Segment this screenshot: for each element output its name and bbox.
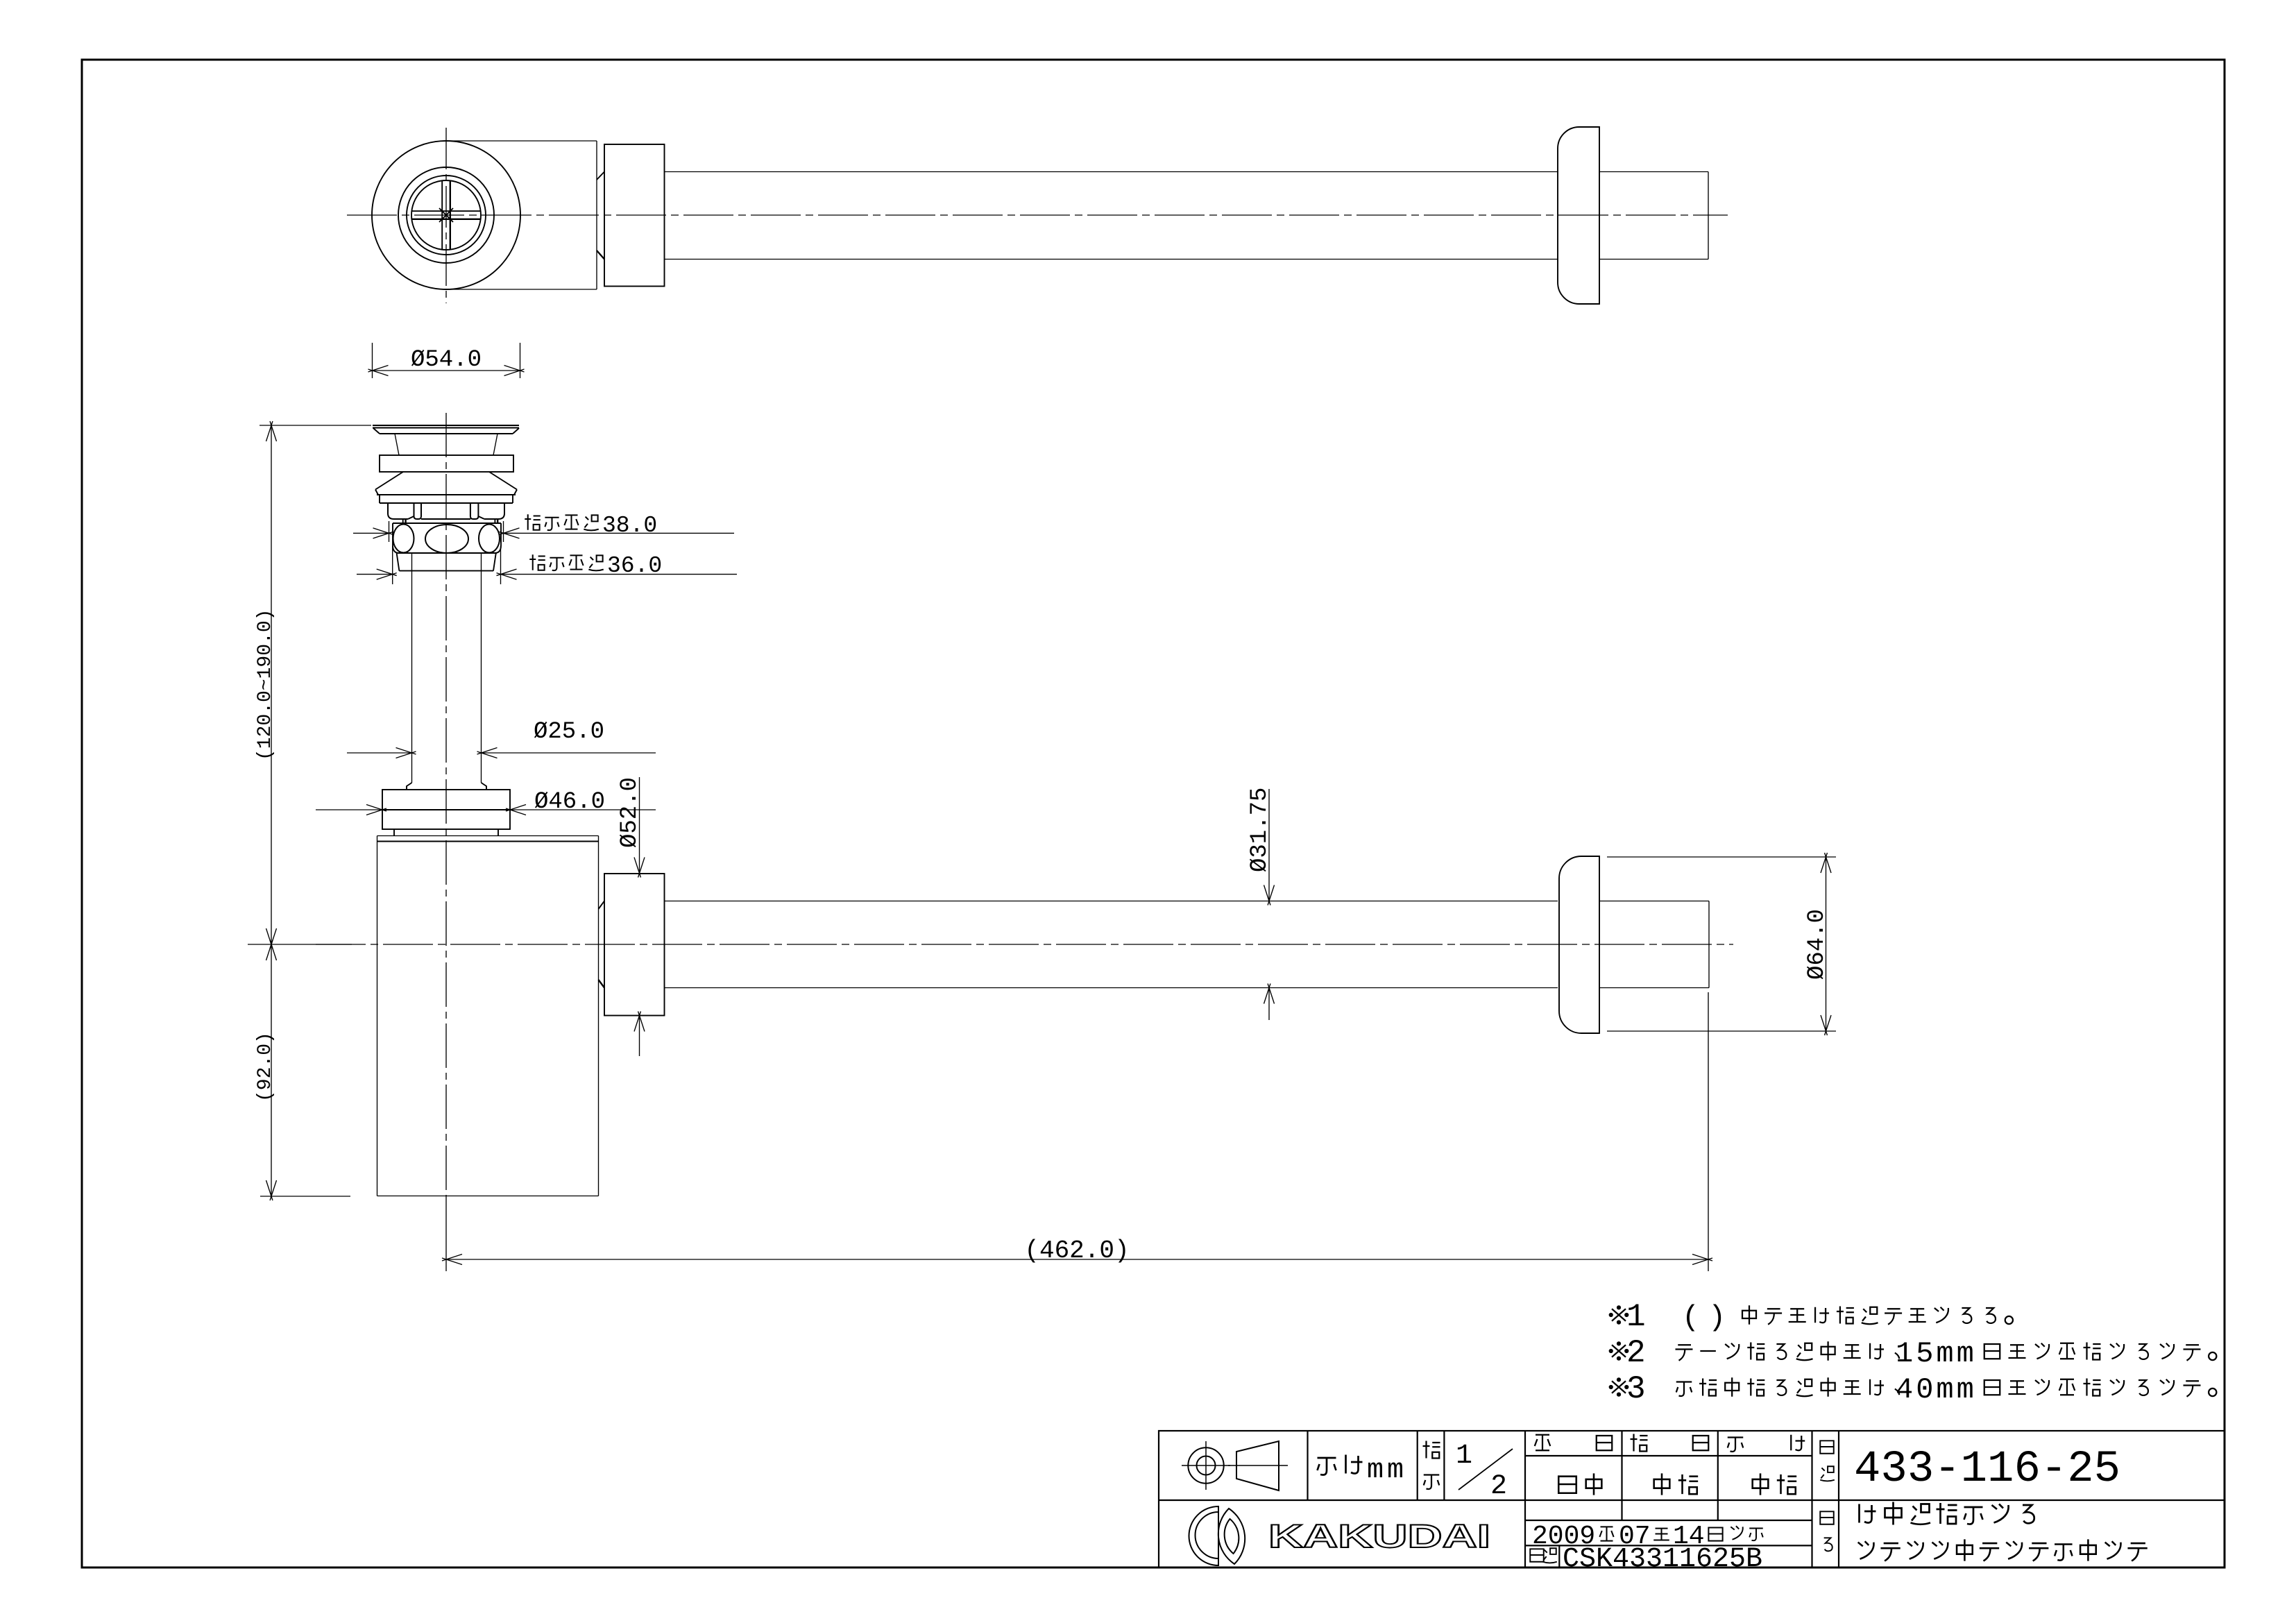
front: hex nut center chamfer ellipse — [425, 525, 468, 553]
dim Ø25.0 line and arrows — [347, 752, 412, 754]
top view: union nut — [604, 144, 665, 287]
header 検図 — [1631, 1434, 1648, 1452]
svg-text:2: 2 — [1626, 1335, 1646, 1371]
svg-text:1: 1 — [1626, 1299, 1646, 1335]
name 中嶋 — [1753, 1473, 1769, 1495]
product name line2 ボックストラップユニット — [1858, 1541, 1874, 1559]
front: horizontal pipe upper line — [665, 901, 1558, 902]
dim 六角対辺36.0 line and arrows — [357, 574, 393, 575]
front view: centerline extension to 462 dim — [445, 1196, 447, 1271]
front: lock ring band — [380, 455, 513, 472]
top view: elbow body — [446, 140, 597, 142]
svg-text:Ø54.0: Ø54.0 — [411, 347, 482, 373]
label 尺度 — [1423, 1441, 1440, 1459]
top view: wall escutcheon — [1558, 127, 1599, 304]
dim Ø52.0 vertical line and arrows — [639, 777, 640, 874]
front: hex nut (38 across flats) body — [393, 523, 501, 553]
title block zuban cell divider — [1558, 1545, 1560, 1567]
svg-text:(92.0): (92.0) — [255, 1032, 276, 1102]
title block outer — [1159, 1431, 2225, 1567]
note 1 — [1610, 1306, 1629, 1323]
svg-text:40mm: 40mm — [1896, 1373, 1977, 1407]
svg-text:3: 3 — [1626, 1371, 1646, 1407]
front: outlet union nut (Ø52) — [604, 874, 665, 1016]
product name line1 低位通気弁つき — [1860, 1504, 1876, 1523]
title block drafting columns — [1621, 1431, 1622, 1520]
svg-text:(120.0~190.0): (120.0~190.0) — [255, 609, 276, 760]
dim Ø31.75 vertical line and arrows — [1268, 789, 1270, 901]
svg-text:Ø64.0: Ø64.0 — [1804, 909, 1830, 980]
front: flange top plate — [373, 425, 519, 434]
label 図番 — [1530, 1549, 1543, 1561]
dim Ø64.0 vertical line and arrows — [1826, 857, 1827, 1031]
title block date row line — [1525, 1545, 1812, 1546]
svg-text:CSK43311625B: CSK43311625B — [1563, 1544, 1762, 1575]
top view: vertical centerline of flange — [445, 128, 447, 303]
title block names row line — [1525, 1520, 1812, 1521]
dim (92.0) vertical line — [271, 944, 272, 1196]
svg-text:15mm: 15mm — [1896, 1337, 1977, 1370]
svg-text:KAKUDAI: KAKUDAI — [1268, 1518, 1490, 1554]
front: wall escutcheon — [1559, 856, 1599, 1033]
title block header row line — [1525, 1455, 1812, 1456]
svg-text:38.0: 38.0 — [602, 513, 657, 538]
front: pipe flare above collar — [407, 783, 486, 790]
front: trap inlet collar (Ø46) — [382, 790, 510, 829]
front: vent valve stems — [402, 519, 404, 524]
top view: thread chamfer marks — [597, 172, 604, 180]
front: tail pipe into socket — [1599, 901, 1709, 902]
front: collar lower step — [394, 829, 498, 836]
dim (462.0) line and arrows — [446, 1259, 1708, 1260]
note 2 — [1610, 1342, 1629, 1359]
svg-text:Ø52.0: Ø52.0 — [617, 777, 643, 848]
dim Ø54.0 — [373, 370, 520, 371]
svg-text:(: ( — [1682, 1301, 1699, 1334]
top view: pipe stub beyond escutcheon — [1599, 171, 1708, 173]
top view: pipe lower line — [665, 259, 1558, 260]
svg-text:(462.0): (462.0) — [1024, 1237, 1129, 1265]
label 六角対辺36.0 — [529, 554, 545, 570]
front: outlet thread chamfer marks — [599, 901, 605, 910]
name 甲藤 — [1654, 1473, 1670, 1495]
dim 六角対辺38.0 line and arrows — [353, 532, 389, 534]
front: skirt lower step — [380, 495, 513, 503]
svg-text:Ø46.0: Ø46.0 — [534, 789, 605, 815]
svg-text:mm: mm — [1367, 1455, 1407, 1486]
top view: horizontal centerline — [347, 214, 1728, 216]
dim (120.0~190.0) vertical line — [271, 425, 272, 944]
dim (120.0~190.0) extension line at flange top — [260, 425, 371, 426]
top view: strainer outer circle — [407, 176, 486, 255]
svg-text:2: 2 — [1490, 1471, 1507, 1502]
top view: strainer inner circle — [411, 180, 481, 250]
top view: strainer cross vertical arm — [441, 181, 443, 250]
top view: pipe upper line — [665, 171, 1558, 173]
dim Ø46.0 line and arrows — [316, 809, 382, 810]
svg-text:Ø25.0: Ø25.0 — [534, 719, 604, 745]
front: vent valve body with slots — [388, 503, 504, 519]
svg-text:): ) — [1708, 1301, 1726, 1334]
front: flange skirt cone — [375, 472, 517, 495]
top view: drain flange outer circle (Ø54) — [372, 141, 520, 289]
top view: strainer cross horizontal arm — [412, 210, 481, 212]
header 製図 — [1535, 1435, 1551, 1451]
front: trap body lip — [377, 835, 599, 837]
front: wall socket pipe (Ø64) — [1607, 856, 1836, 858]
label 品名 — [1820, 1511, 1833, 1524]
front: trap body cylinder — [377, 836, 378, 1196]
top view: strainer cross center X — [439, 208, 453, 222]
svg-text:Ø31.75: Ø31.75 — [1247, 788, 1273, 872]
title block horizontal divider — [1159, 1499, 1812, 1501]
title block vertical dividers top row — [1307, 1431, 1308, 1500]
header 承認 — [1728, 1438, 1744, 1452]
front: extension line from pipe end down to 462 dim — [1708, 992, 1709, 1271]
front view: vertical centerline — [445, 413, 447, 1196]
label 品番 — [1820, 1441, 1833, 1453]
svg-text:433-116-25: 433-116-25 — [1854, 1445, 2120, 1495]
label 六角対辺38.0 — [525, 514, 541, 530]
dim Ø54.0 extension lines — [372, 343, 373, 378]
svg-text:1: 1 — [1456, 1441, 1472, 1472]
svg-text:36.0: 36.0 — [607, 553, 662, 579]
KAKUDAI logo mark — [1189, 1506, 1219, 1565]
top view: flange inner ring circle — [398, 167, 494, 263]
front: hex nut left chamfer ellipse — [393, 525, 414, 553]
front view: horizontal centerline — [316, 944, 1733, 945]
label 単位mm — [1318, 1458, 1336, 1475]
front: flange cone neck — [395, 434, 399, 455]
front: tail pipe Ø25 — [411, 553, 413, 783]
front: hex washer (36 across flats) — [397, 553, 496, 571]
front: horizontal pipe lower line — [665, 987, 1558, 989]
note 3 — [1610, 1378, 1629, 1395]
front: hex nut right chamfer ellipse — [479, 525, 500, 553]
third angle projection symbol — [1188, 1447, 1223, 1483]
dim 六角対辺38.0 extension lines — [389, 521, 390, 542]
name 田中 — [1558, 1477, 1576, 1493]
dim (92.0) extension lines — [248, 944, 352, 945]
dim 六角対辺36.0 extension lines — [392, 546, 393, 584]
